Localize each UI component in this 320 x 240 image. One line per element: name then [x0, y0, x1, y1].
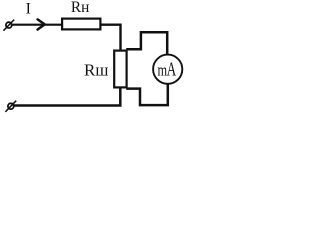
svg-text:A: A [167, 60, 177, 81]
terminal T2 (bottom left) [5, 101, 16, 112]
milliammeter mA [153, 55, 182, 84]
svg-text:Rн: Rн [71, 0, 89, 16]
wire Rш top to mA top [126, 32, 167, 54]
resistor Rш (shunt, vertical) [114, 51, 126, 88]
wire Rш bottom to T2 [13, 87, 120, 105]
wire Rн to node, down to Rш top [100, 25, 120, 51]
resistor Rн [62, 19, 100, 30]
wire mA bottom to Rш bottom [126, 83, 168, 105]
terminal T1 (top left input) [3, 20, 14, 31]
arrow (current direction) [38, 19, 45, 29]
svg-text:I: I [26, 1, 31, 18]
wire from T1 to Rn [12, 24, 62, 26]
svg-text:Rш: Rш [84, 61, 108, 80]
